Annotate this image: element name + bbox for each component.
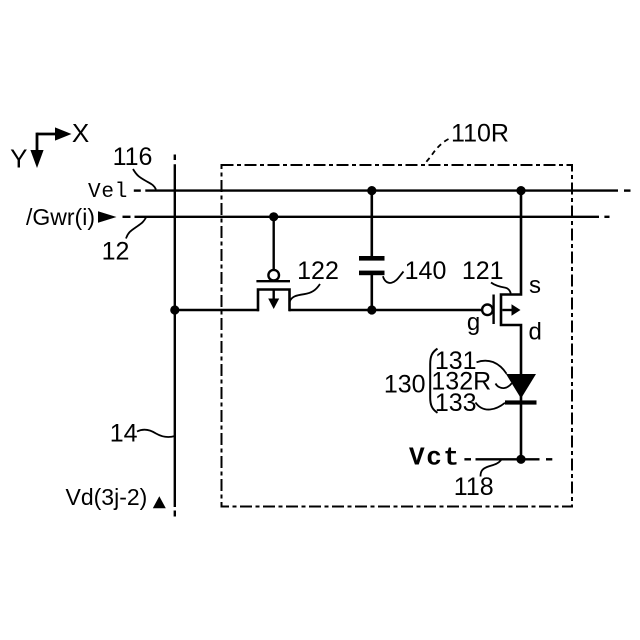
transistor 122: [256, 217, 290, 311]
OLED 130 anode/emitting/cathode layers: [505, 374, 537, 459]
dashed module boundary 110R: [222, 165, 573, 507]
wire gate row right (122 to 121 gate): [289, 309, 483, 312]
svg-text:X: X: [72, 118, 89, 148]
leader 118: [481, 460, 502, 476]
wire /Gwr(i) scan line: [123, 216, 610, 218]
brace 130 group: [430, 349, 437, 413]
leader 14: [137, 430, 175, 437]
axis X arrow: [37, 127, 72, 140]
wire gate row left: [175, 309, 259, 312]
arrow Vd(3j-2) input: [153, 496, 166, 508]
svg-text:121: 121: [462, 257, 504, 285]
wire data line 14: [174, 155, 176, 517]
svg-text:122: 122: [297, 257, 339, 285]
svg-text:130: 130: [384, 371, 426, 399]
svg-text:s: s: [529, 272, 541, 299]
svg-text:/Gwr(i): /Gwr(i): [26, 204, 95, 230]
capacitor 140: [359, 191, 385, 310]
junction node Vel / capacitor: [367, 186, 376, 195]
svg-text:Y: Y: [10, 144, 27, 174]
arrow /Gwr(i) input: [98, 211, 117, 223]
wire Vct common electrode: [464, 458, 552, 460]
svg-text:116: 116: [113, 143, 153, 171]
svg-text:133: 133: [435, 389, 477, 417]
junction node data line / gate row wire: [170, 305, 179, 314]
axis Y arrow: [30, 133, 43, 168]
junction node Vct / OLED cathode: [516, 455, 525, 464]
svg-text:12: 12: [102, 238, 130, 266]
junction node /Gwr(i) / 122 gate: [269, 212, 278, 221]
svg-text:Vct: Vct: [409, 443, 461, 473]
leader 116: [133, 169, 156, 190]
svg-text:118: 118: [454, 473, 494, 501]
svg-text:140: 140: [405, 257, 447, 285]
transistor 121: [482, 190, 521, 376]
svg-text:110R: 110R: [451, 120, 509, 148]
leader 133: [476, 403, 506, 410]
svg-text:d: d: [529, 319, 542, 346]
leader 110R: [425, 139, 449, 164]
svg-text:Vd(3j-2): Vd(3j-2): [66, 484, 148, 510]
leader 131: [477, 361, 507, 374]
leader 132R: [496, 383, 512, 388]
svg-text:14: 14: [110, 420, 138, 448]
junction node gate row / capacitor: [367, 305, 376, 314]
leader 12: [126, 218, 146, 239]
svg-text:g: g: [467, 309, 480, 336]
wire Vel power line: [134, 189, 631, 191]
junction node Vel / 121 source: [516, 186, 525, 195]
leader 122: [290, 284, 320, 302]
leader 121: [491, 283, 511, 294]
leader 140: [383, 272, 404, 283]
svg-text:Vel: Vel: [88, 181, 128, 204]
